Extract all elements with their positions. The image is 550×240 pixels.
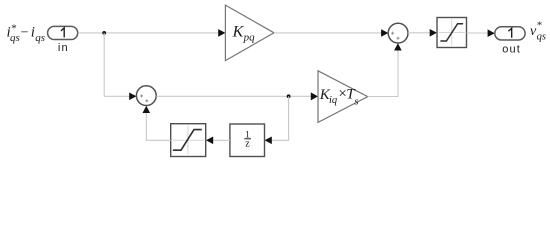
inport In1 bbox=[48, 26, 78, 39]
svg-text:out: out bbox=[502, 43, 521, 55]
junction J1 bbox=[102, 31, 106, 35]
gain KiqTs bbox=[318, 71, 368, 123]
sum Sum2 plus signs bbox=[140, 94, 148, 102]
svg-text:qs: qs bbox=[537, 32, 546, 43]
svg-text:z: z bbox=[245, 139, 250, 150]
wire inport to Kpq bbox=[78, 32, 219, 34]
svg-text:in: in bbox=[58, 42, 69, 54]
arrowhead into Kpq bbox=[218, 29, 225, 37]
wire Saturation1 to outport bbox=[467, 32, 490, 34]
arrowhead into outport bbox=[488, 29, 495, 37]
arrowhead into UnitDelay bbox=[265, 137, 272, 145]
outport Out1 bbox=[495, 27, 525, 40]
saturation Saturation2 bbox=[171, 124, 206, 157]
arrowhead up into Sum2 bbox=[143, 106, 151, 113]
svg-text:*: * bbox=[537, 20, 543, 32]
arrowhead into Sum1 bbox=[381, 29, 388, 37]
gain Kpq label bbox=[232, 24, 256, 44]
svg-text:pq: pq bbox=[243, 31, 256, 43]
wire KiqTs to Sum1 bottom bbox=[368, 50, 398, 97]
svg-text:−: − bbox=[21, 25, 29, 40]
wire Sum2 to KiqTs bbox=[156, 95, 311, 97]
node label i*qs - iqs bbox=[7, 23, 45, 44]
wire J1 down bbox=[103, 33, 105, 96]
gain KiqTs label bbox=[319, 86, 359, 108]
wire J2 down to UnitDelay bbox=[272, 96, 289, 140]
arrowhead into KiqTs bbox=[311, 92, 318, 100]
wire Kpq to Sum1 bbox=[274, 32, 382, 34]
sum Sum1 bbox=[388, 23, 408, 43]
svg-text:qs: qs bbox=[35, 32, 45, 44]
wire J1 to Sum2 bbox=[104, 95, 130, 97]
sum Sum1 plus signs bbox=[391, 32, 399, 40]
junction J2 bbox=[287, 94, 291, 98]
wire Saturation2 to Sum2 bottom bbox=[146, 113, 170, 141]
saturation Saturation1 bbox=[437, 18, 467, 48]
svg-text:s: s bbox=[354, 97, 358, 108]
arrowhead into Saturation2 bbox=[206, 137, 213, 145]
gain Kpq bbox=[225, 5, 274, 61]
node label v*qs bbox=[530, 20, 546, 43]
arrowhead into Saturation1 bbox=[430, 29, 437, 37]
sum Sum2 bbox=[136, 86, 156, 106]
svg-text:qs: qs bbox=[10, 32, 20, 44]
arrowhead into Sum2 bbox=[129, 93, 136, 101]
wire UnitDelay to Saturation2 bbox=[213, 139, 230, 141]
unit delay 1/z bbox=[230, 124, 265, 157]
wire Sum1 to Saturation1 bbox=[408, 32, 431, 34]
svg-text:iq: iq bbox=[329, 95, 337, 106]
arrowhead up into Sum1 bbox=[394, 43, 402, 50]
